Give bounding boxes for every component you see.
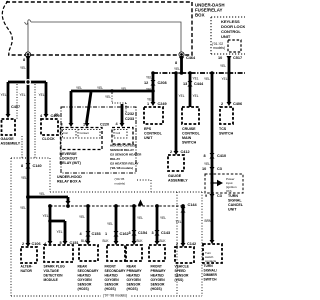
front secondary HO2S box bbox=[107, 245, 125, 261]
boundary: dotted region ('97-'98 models) bbox=[11, 158, 202, 296]
svg-text:('96-'98 models): ('96-'98 models) bbox=[110, 166, 133, 170]
svg-text:RELAY BOX A: RELAY BOX A bbox=[57, 180, 81, 184]
wire color labels bbox=[1, 64, 228, 243]
svg-text:contacts: contacts bbox=[205, 259, 217, 263]
svg-text:REAR: REAR bbox=[78, 265, 88, 269]
svg-text:SENSOR RELAY: SENSOR RELAY bbox=[110, 148, 135, 152]
svg-text:8: 8 bbox=[204, 154, 206, 158]
svg-text:C144: C144 bbox=[188, 203, 198, 207]
pin / connector labels bbox=[11, 56, 242, 246]
svg-text:PRIMARY: PRIMARY bbox=[127, 269, 143, 273]
connector C410 (in-line) bbox=[210, 153, 215, 159]
wire: reverse lockout relay pin3 bbox=[70, 91, 73, 123]
svg-text:('97-'98 models): ('97-'98 models) bbox=[103, 294, 127, 298]
turn signal/dimmer switch box bbox=[203, 244, 222, 263]
connector C142 bbox=[181, 243, 186, 247]
svg-text:C106: C106 bbox=[32, 242, 41, 246]
connector C140 (in-line on main wire) bbox=[26, 163, 31, 169]
svg-text:(HO2S): (HO2S) bbox=[78, 287, 89, 291]
svg-text:C412: C412 bbox=[181, 150, 190, 154]
gauge assembly box (left) bbox=[2, 119, 16, 135]
connector C407 arrow bbox=[6, 114, 11, 118]
connector: spark pin4 bbox=[48, 241, 53, 245]
svg-text:C162: C162 bbox=[120, 232, 129, 236]
svg-text:DIMMER: DIMMER bbox=[204, 273, 218, 277]
svg-text:HEATED: HEATED bbox=[78, 274, 92, 278]
wire: T-bus y=82 bbox=[8, 81, 46, 84]
svg-text:OXYGEN: OXYGEN bbox=[127, 278, 142, 282]
node: dot (50,221) bbox=[48, 219, 52, 223]
svg-text:NATOR: NATOR bbox=[21, 269, 33, 273]
svg-text:HEATED: HEATED bbox=[151, 274, 165, 278]
connector C249 bbox=[151, 102, 156, 106]
svg-text:YEL: YEL bbox=[107, 222, 113, 226]
svg-text:8: 8 bbox=[23, 58, 25, 62]
svg-text:REAR: REAR bbox=[127, 265, 137, 269]
connector: spark pin5 bbox=[63, 241, 68, 245]
svg-text:(HO2S): (HO2S) bbox=[127, 287, 138, 291]
wire: branch to pin5 bbox=[50, 221, 65, 241]
svg-text:10: 10 bbox=[218, 56, 222, 60]
svg-text:C406: C406 bbox=[233, 102, 242, 106]
svg-text:models): models) bbox=[213, 46, 225, 50]
svg-text:RELAY (M/T): RELAY (M/T) bbox=[60, 161, 82, 165]
svg-text:C444: C444 bbox=[194, 82, 204, 86]
svg-text:YEL: YEL bbox=[21, 176, 27, 180]
svg-text:C410: C410 bbox=[217, 154, 226, 158]
svg-text:CONTROL: CONTROL bbox=[182, 132, 201, 136]
svg-text:GAUGE: GAUGE bbox=[1, 137, 15, 141]
bottom component labels bbox=[21, 264, 218, 291]
svg-text:C220: C220 bbox=[100, 123, 109, 127]
svg-text:ALTER-: ALTER- bbox=[21, 265, 33, 269]
node: main junction (28,197) bbox=[26, 195, 30, 199]
wire: front primary HO2S column bbox=[156, 206, 159, 241]
junction dots on lower bus bbox=[48, 204, 185, 208]
node: open junction at (28,82) bbox=[25, 79, 31, 85]
svg-text:CLOCK: CLOCK bbox=[42, 137, 55, 141]
svg-text:OXYGEN: OXYGEN bbox=[78, 278, 93, 282]
VSS box bbox=[175, 247, 194, 263]
svg-text:GAUGE: GAUGE bbox=[168, 174, 182, 178]
svg-text:C517: C517 bbox=[233, 56, 242, 60]
svg-text:YEL: YEL bbox=[43, 214, 49, 218]
svg-text:REVERSE: REVERSE bbox=[60, 152, 78, 156]
wire: rear secondary HO2S column bbox=[87, 206, 90, 241]
svg-text:YEL: YEL bbox=[220, 64, 226, 68]
connector: turn box entry bbox=[210, 240, 215, 244]
svg-text:models): models) bbox=[115, 182, 126, 186]
svg-text:YEL: YEL bbox=[137, 216, 143, 220]
svg-text:DETECTION: DETECTION bbox=[44, 274, 64, 278]
cruise control main switch box bbox=[182, 107, 199, 124]
connector C106 bbox=[26, 243, 31, 247]
svg-text:2: 2 bbox=[170, 150, 172, 154]
svg-text:1: 1 bbox=[83, 123, 85, 127]
connector C144 (in-line) bbox=[181, 207, 186, 213]
wire: EPS column bbox=[152, 73, 155, 102]
svg-text:SPEED: SPEED bbox=[175, 269, 187, 273]
svg-text:O2 HEATER RELAY: O2 HEATER RELAY bbox=[110, 162, 139, 166]
svg-text:YEL: YEL bbox=[20, 93, 26, 97]
svg-text:C153: C153 bbox=[92, 232, 101, 236]
bus: dash-dot splice bus y=73 bbox=[153, 72, 245, 74]
wire: rear primary HO2S column bbox=[133, 206, 136, 241]
svg-text:YEL: YEL bbox=[204, 77, 210, 81]
svg-text:10: 10 bbox=[202, 167, 206, 171]
svg-text:SENSOR: SENSOR bbox=[175, 274, 190, 278]
clock box bbox=[41, 119, 58, 135]
svg-text:YEL: YEL bbox=[160, 216, 166, 220]
svg-text:OXYGEN: OXYGEN bbox=[151, 278, 166, 282]
EPS control unit box bbox=[144, 107, 163, 124]
svg-text:O2 SENSOR HEATER: O2 SENSOR HEATER bbox=[110, 153, 142, 157]
svg-text:YEL: YEL bbox=[76, 86, 82, 90]
svg-text:C249: C249 bbox=[158, 102, 167, 106]
svg-text:YEL: YEL bbox=[146, 76, 152, 80]
alternator box bbox=[21, 247, 37, 263]
svg-text:BLK: BLK bbox=[137, 239, 144, 243]
svg-text:YEL: YEL bbox=[193, 77, 199, 81]
svg-text:EPS: EPS bbox=[144, 127, 152, 131]
svg-text:YEL: YEL bbox=[39, 192, 45, 196]
svg-text:BLK: BLK bbox=[160, 239, 167, 243]
svg-text:('00-'05: ('00-'05 bbox=[115, 177, 125, 181]
svg-text:YEL: YEL bbox=[97, 86, 103, 90]
svg-text:HEATED: HEATED bbox=[127, 274, 141, 278]
svg-text:TURN: TURN bbox=[228, 194, 238, 198]
connector C517 bbox=[227, 56, 232, 60]
svg-text:LOCKOUT: LOCKOUT bbox=[60, 157, 79, 161]
svg-text:C407: C407 bbox=[11, 105, 20, 109]
svg-text:CONTROL: CONTROL bbox=[144, 132, 163, 136]
connector C3 pin10 bbox=[210, 167, 215, 171]
svg-text:YEL: YEL bbox=[20, 66, 26, 70]
svg-text:C3: C3 bbox=[217, 194, 222, 198]
svg-text:YEL: YEL bbox=[1, 93, 7, 97]
svg-text:YEL: YEL bbox=[105, 95, 111, 99]
svg-text:RELAY: RELAY bbox=[110, 157, 121, 161]
svg-text:UNIT: UNIT bbox=[228, 208, 237, 212]
node: dot at (112,91) bbox=[110, 89, 114, 93]
svg-text:SIGNAL/: SIGNAL/ bbox=[204, 269, 217, 273]
svg-text:BLK: BLK bbox=[103, 239, 110, 243]
wire: gauge column x=176 bbox=[175, 73, 178, 151]
wire: drop to C409 bbox=[45, 82, 48, 114]
svg-text:YEL: YEL bbox=[121, 87, 127, 91]
rear primary HO2S box bbox=[126, 245, 142, 261]
svg-text:1: 1 bbox=[147, 102, 149, 106]
svg-text:C143: C143 bbox=[161, 231, 170, 235]
svg-text:UNDER-HOOD: UNDER-HOOD bbox=[57, 175, 82, 179]
svg-text:YEL: YEL bbox=[20, 206, 26, 210]
wire: spark plug module column bbox=[49, 206, 52, 241]
wire: lower bus y=206 (thin dashed splice bus) bbox=[50, 205, 183, 207]
svg-text:C233: C233 bbox=[125, 117, 134, 121]
reverse lockout relay box bbox=[61, 128, 103, 150]
svg-text:YEL: YEL bbox=[222, 77, 228, 81]
svg-text:FRONT: FRONT bbox=[151, 265, 162, 269]
svg-text:FRONT: FRONT bbox=[105, 265, 116, 269]
svg-text:YEL: YEL bbox=[39, 93, 45, 97]
wire: turn signal column x=212 bbox=[211, 73, 214, 240]
region label '97-'98 models bbox=[101, 292, 130, 299]
svg-text:12: 12 bbox=[144, 81, 148, 85]
svg-text:3: 3 bbox=[129, 231, 131, 235]
svg-text:YEL: YEL bbox=[193, 94, 199, 98]
svg-text:5: 5 bbox=[60, 241, 62, 245]
svg-text:VEHICLE: VEHICLE bbox=[175, 265, 190, 269]
wire: front secondary HO2S column bbox=[115, 206, 118, 241]
wire: relay feed bus y=91 bbox=[71, 90, 153, 93]
wire: C464 drop to bus bbox=[180, 56, 183, 73]
spark plug module box bbox=[44, 245, 73, 262]
svg-text:13: 13 bbox=[183, 82, 187, 86]
svg-text:3: 3 bbox=[152, 231, 154, 235]
svg-text:SENSOR: SENSOR bbox=[127, 283, 142, 287]
keyless door lock control unit box (dotted) bbox=[211, 17, 245, 54]
wire: VSS column bbox=[182, 206, 185, 243]
wire: upper bottom bus y=197 bbox=[28, 197, 68, 201]
svg-text:3: 3 bbox=[61, 123, 63, 127]
svg-text:YEL: YEL bbox=[176, 220, 182, 224]
svg-text:BLK: BLK bbox=[81, 239, 88, 243]
svg-text:SENSOR: SENSOR bbox=[78, 283, 93, 287]
svg-text:HEATED OXYGEN: HEATED OXYGEN bbox=[110, 144, 137, 148]
svg-text:Coil: Coil bbox=[116, 131, 121, 135]
junction dots on y=73 bus bbox=[151, 71, 231, 75]
svg-text:SPARK PLUG: SPARK PLUG bbox=[44, 265, 66, 269]
svg-text:ASSEMBLY: ASSEMBLY bbox=[1, 142, 21, 146]
svg-text:C232: C232 bbox=[125, 112, 134, 116]
svg-text:SECONDARY: SECONDARY bbox=[78, 269, 100, 273]
wire: dotted to O2 relay bbox=[112, 93, 126, 112]
front primary HO2S box bbox=[149, 245, 165, 261]
wire: keyless C517 drop bbox=[228, 56, 231, 73]
svg-text:TURN: TURN bbox=[204, 264, 214, 268]
svg-text:C154: C154 bbox=[138, 231, 148, 235]
connector C406 bbox=[227, 102, 232, 106]
connector C412 bbox=[174, 151, 179, 155]
connector: arrow up ('00-'05) bbox=[138, 200, 144, 206]
svg-text:YEL: YEL bbox=[57, 230, 63, 234]
node: C464 exit circle bbox=[179, 52, 184, 57]
svg-text:1: 1 bbox=[105, 232, 107, 236]
svg-text:Coil: Coil bbox=[63, 131, 68, 135]
rear secondary HO2S box bbox=[79, 245, 98, 261]
svg-text:YEL: YEL bbox=[174, 67, 180, 71]
wire: TCS column x=229 bbox=[228, 73, 231, 102]
svg-text:YEL: YEL bbox=[179, 94, 185, 98]
turn signal cancel unit note box bbox=[205, 174, 243, 193]
svg-text:BRN: BRN bbox=[205, 219, 212, 223]
svg-text:C464: C464 bbox=[186, 56, 196, 60]
svg-text:CANCEL: CANCEL bbox=[228, 203, 244, 207]
under-hood relay box A (dash-dot) bbox=[61, 107, 136, 173]
connector C444 (in-line) bbox=[188, 81, 193, 87]
svg-text:SECONDARY: SECONDARY bbox=[105, 269, 127, 273]
svg-text:9: 9 bbox=[205, 194, 207, 198]
svg-text:YEL: YEL bbox=[147, 98, 153, 102]
under-dash fuse/relay box (dashed boundary) bbox=[2, 1, 192, 55]
svg-text:OXYGEN: OXYGEN bbox=[105, 278, 120, 282]
svg-text:SENSOR: SENSOR bbox=[105, 283, 120, 287]
svg-text:VOLTAGE: VOLTAGE bbox=[44, 269, 60, 273]
heated O2 sensor relay box bbox=[112, 128, 133, 145]
svg-text:C3: C3 bbox=[217, 167, 222, 171]
svg-text:SWITCH: SWITCH bbox=[219, 132, 234, 136]
node: EPS column junction (153,91) bbox=[151, 89, 155, 93]
wire (thin) inside fuse box bbox=[25, 20, 181, 52]
svg-text:SIGNAL: SIGNAL bbox=[228, 199, 242, 203]
svg-text:40: 40 bbox=[54, 113, 58, 117]
svg-text:UNIT: UNIT bbox=[144, 136, 153, 140]
wire: O2 relay pin4 bbox=[121, 104, 124, 123]
node: fuse box exit to main wire (circle) bbox=[25, 52, 30, 57]
connector C409 arrow bbox=[44, 114, 49, 118]
wire: drop to C407 bbox=[7, 82, 10, 114]
svg-text:TCS: TCS bbox=[219, 127, 227, 131]
svg-text:MODULE: MODULE bbox=[44, 278, 59, 282]
svg-text:CRUISE: CRUISE bbox=[182, 127, 196, 131]
svg-text:2: 2 bbox=[22, 242, 24, 246]
connector C464 bbox=[179, 57, 184, 61]
svg-text:SWITCH: SWITCH bbox=[204, 278, 218, 282]
svg-text:SENSOR: SENSOR bbox=[151, 283, 166, 287]
svg-text:(HO2S): (HO2S) bbox=[151, 287, 162, 291]
svg-text:C140: C140 bbox=[33, 164, 42, 168]
wire: reverse lockout relay pin1 (slanted) bbox=[87, 92, 92, 123]
svg-text:BOX: BOX bbox=[195, 13, 205, 18]
svg-text:8: 8 bbox=[175, 61, 177, 65]
svg-text:(HO2S): (HO2S) bbox=[105, 287, 116, 291]
svg-text:PRIMARY: PRIMARY bbox=[151, 269, 167, 273]
svg-text:ASSEMBLY: ASSEMBLY bbox=[168, 179, 188, 183]
svg-text:UNIT: UNIT bbox=[221, 34, 231, 39]
component name labels bbox=[1, 127, 244, 212]
svg-text:Contact: Contact bbox=[80, 131, 90, 135]
wire: main vertical YEL (left) bbox=[27, 56, 30, 243]
keyless sub box bbox=[228, 40, 241, 52]
connector: arrow down onto lower bus bbox=[66, 201, 71, 205]
ALL TEXT LABELS bbox=[195, 3, 246, 40]
svg-text:SWITCH: SWITCH bbox=[182, 141, 197, 145]
svg-text:YEL: YEL bbox=[146, 88, 152, 92]
svg-text:HEATED: HEATED bbox=[105, 274, 119, 278]
wire: dotted alternate runs bbox=[17, 84, 35, 158]
svg-text:MAIN: MAIN bbox=[182, 136, 192, 140]
wire: cruise column x=190 bbox=[189, 73, 192, 107]
svg-text:2: 2 bbox=[221, 102, 223, 106]
connector C208 (in-line) bbox=[151, 80, 156, 86]
svg-text:YEL: YEL bbox=[79, 215, 85, 219]
svg-text:C151: C151 bbox=[70, 241, 79, 245]
node: cancel unit junction bbox=[210, 181, 213, 184]
wire: power input arrow bbox=[212, 182, 217, 184]
TCS switch box bbox=[220, 107, 233, 124]
connector C3 pin9 bbox=[210, 194, 215, 198]
svg-text:2: 2 bbox=[176, 242, 178, 246]
svg-text:(VSS): (VSS) bbox=[175, 278, 184, 282]
gauge assembly box (center) bbox=[168, 155, 184, 171]
svg-text:8: 8 bbox=[21, 164, 23, 168]
svg-text:C142: C142 bbox=[187, 242, 196, 246]
svg-text:YEL: YEL bbox=[204, 162, 210, 166]
svg-text:ON): ON) bbox=[226, 189, 232, 193]
svg-text:C208: C208 bbox=[158, 81, 167, 85]
